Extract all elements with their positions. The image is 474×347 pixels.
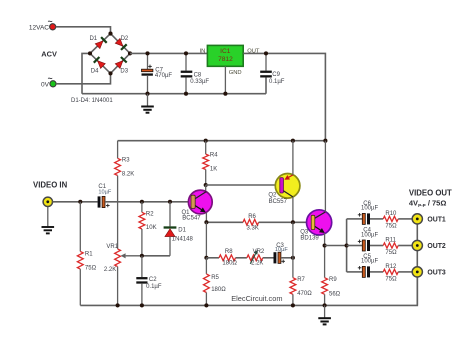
svg-text:R7: R7 <box>297 277 305 283</box>
resistor R8 <box>219 249 237 267</box>
resistor R2 <box>139 202 157 256</box>
svg-text:10K: 10K <box>146 225 157 231</box>
resistor R11 75Ω <box>383 238 398 256</box>
resistor R12 75Ω <box>383 264 398 282</box>
capacitor C7 <box>142 53 173 93</box>
svg-text:75Ω: 75Ω <box>85 265 97 271</box>
terminal VIDEO IN <box>33 181 68 234</box>
svg-text:D4: D4 <box>91 69 99 75</box>
svg-text:100µF: 100µF <box>361 206 378 212</box>
svg-text:OUT3: OUT3 <box>427 269 446 276</box>
junction Q1 collector node <box>204 183 208 187</box>
wire bus to C6 <box>347 218 363 220</box>
svg-text:D3: D3 <box>120 69 128 75</box>
wire R8 to VR2 <box>236 257 247 259</box>
svg-text:R6: R6 <box>248 214 256 220</box>
wire C5 to R12 <box>370 271 383 273</box>
junction wiper row C2 <box>140 254 144 258</box>
wire C1 to Q1 base <box>105 201 189 203</box>
junction mid rail right corner <box>323 139 327 143</box>
svg-text:BC547: BC547 <box>182 216 201 222</box>
capacitor C5 100µF <box>358 254 379 278</box>
svg-text:OUT2: OUT2 <box>427 243 446 250</box>
svg-text:BD139: BD139 <box>300 235 319 241</box>
svg-text:Q2: Q2 <box>268 193 277 199</box>
ground symbol below R9 <box>318 305 331 324</box>
svg-text:R8: R8 <box>225 249 233 255</box>
terminal OUT1 <box>412 214 446 224</box>
svg-text:D1: D1 <box>178 227 186 233</box>
svg-text:180Ω: 180Ω <box>211 287 226 293</box>
wire 0V to bridge bottom <box>56 73 111 83</box>
svg-text:12VAC: 12VAC <box>29 24 49 31</box>
node bridge left vertex <box>88 51 92 55</box>
resistor R5 <box>204 258 227 306</box>
terminal 12VAC input <box>29 16 56 31</box>
svg-text:0.1µF: 0.1µF <box>269 79 285 85</box>
diode D4 <box>91 57 106 75</box>
svg-text:R4: R4 <box>210 153 218 159</box>
svg-text:2.2K: 2.2K <box>251 261 263 267</box>
svg-text:470µF: 470µF <box>155 73 172 79</box>
wire Q3 collector from rail <box>324 141 326 212</box>
svg-text:Q3: Q3 <box>300 229 309 235</box>
transistor Q2 BC557 <box>268 174 300 205</box>
junction output bus <box>345 243 349 247</box>
svg-text:D1-D4: 1N4001: D1-D4: 1N4001 <box>71 98 113 104</box>
wire IC1 OUT rail <box>243 53 325 140</box>
svg-text:4VP-P / 75Ω: 4VP-P / 75Ω <box>409 199 446 208</box>
junction R1 top <box>78 200 82 204</box>
capacitor C1 <box>98 184 112 208</box>
wire VR1 wiper row <box>142 255 170 257</box>
wire bottom ground rail <box>80 272 417 306</box>
diode D3 <box>115 57 128 75</box>
wire Q2 collector node down <box>292 222 294 257</box>
terminal OUT3 <box>412 267 446 277</box>
junction C9 top <box>264 51 268 55</box>
wire C3 to R7 node <box>281 257 293 259</box>
wire Q1 emitter node to R6 <box>206 221 243 223</box>
wire 12VAC to bridge top <box>56 27 111 34</box>
capacitor C6 100µF <box>358 201 379 225</box>
wire output bus <box>346 219 348 272</box>
resistor R4 <box>203 141 218 185</box>
diode D2 <box>115 36 129 50</box>
junction R6 left <box>204 220 208 224</box>
svg-text:IN: IN <box>199 48 205 54</box>
svg-text:R1: R1 <box>85 251 93 257</box>
svg-text:100µF: 100µF <box>361 232 378 238</box>
svg-text:OUT1: OUT1 <box>427 216 446 223</box>
node bridge right vertex <box>128 51 132 55</box>
junction R8 row left <box>204 256 208 260</box>
svg-text:VIDEO IN: VIDEO IN <box>33 181 68 190</box>
svg-text:BC557: BC557 <box>269 199 288 205</box>
resistor R10 75Ω <box>383 211 398 229</box>
svg-text:ElecCircuit.com: ElecCircuit.com <box>231 294 282 303</box>
svg-text:3.3K: 3.3K <box>247 225 259 231</box>
junction D1 top <box>168 200 172 204</box>
junction bottom R5 <box>204 303 208 307</box>
junction bottom C2 <box>140 303 144 307</box>
wire Q2 base <box>206 184 280 186</box>
transistor Q1 BC547 <box>182 190 213 222</box>
wire bridge left vertex to ground rail <box>82 53 90 93</box>
svg-text:R5: R5 <box>211 275 219 281</box>
wire Q1 collector <box>205 185 207 192</box>
diode D1 1N4148 <box>164 202 194 256</box>
svg-text:1K: 1K <box>210 166 217 172</box>
svg-text:GND: GND <box>229 70 242 76</box>
svg-text:VIDEO OUT: VIDEO OUT <box>409 189 452 198</box>
resistor R3 <box>115 141 135 178</box>
wire Q1 emitter <box>205 213 207 223</box>
wire Q2 collector down <box>292 197 294 222</box>
svg-text:~: ~ <box>48 73 53 83</box>
svg-text:75Ω: 75Ω <box>385 223 397 229</box>
wire +12V mid rail <box>118 140 326 142</box>
wire bus to C4 <box>347 245 363 247</box>
svg-text:R11: R11 <box>385 238 396 244</box>
wire to R8 <box>206 257 219 259</box>
wire output terminal bus <box>416 219 418 306</box>
svg-text:7812: 7812 <box>218 56 233 63</box>
label ElecCircuit.com <box>231 294 282 303</box>
wire Q3 emitter down <box>324 233 326 245</box>
wire R11 to OUT2 <box>398 245 412 247</box>
ground symbol below C7 <box>141 94 154 113</box>
diode D1 <box>89 36 106 48</box>
junction C7 top <box>145 51 149 55</box>
svg-text:~: ~ <box>48 16 53 26</box>
wire VIDEO IN to C1 <box>53 201 98 203</box>
svg-text:75Ω: 75Ω <box>385 276 397 282</box>
svg-text:0.1µF: 0.1µF <box>146 284 162 290</box>
junction Q2 collector R6 row <box>291 220 295 224</box>
wire bus to C5 <box>347 271 363 273</box>
wire R6 to Q3 base <box>259 221 312 223</box>
junction C8 bottom <box>184 92 188 96</box>
svg-text:180Ω: 180Ω <box>222 261 237 267</box>
capacitor C4 100µF <box>358 228 379 252</box>
svg-text:R9: R9 <box>329 277 337 283</box>
bridge frame wires <box>90 34 130 74</box>
svg-text:VR2: VR2 <box>253 249 265 255</box>
svg-text:75Ω: 75Ω <box>385 250 397 256</box>
terminal 0V input <box>41 73 56 88</box>
svg-text:C2: C2 <box>149 277 157 283</box>
wire VR2 to C3 <box>263 257 274 259</box>
transistor Q3 BD139 <box>300 210 332 242</box>
wire Q3 emitter to output bus <box>325 245 347 247</box>
svg-text:C8: C8 <box>194 72 202 78</box>
label ACV <box>41 50 57 59</box>
potentiometer VR1 <box>104 244 142 305</box>
svg-text:56Ω: 56Ω <box>329 291 341 297</box>
svg-text:100µF: 100µF <box>361 259 378 265</box>
svg-text:C9: C9 <box>272 72 280 78</box>
svg-text:R10: R10 <box>385 211 397 217</box>
junction IC1 GND <box>223 92 227 96</box>
resistor R1 <box>77 202 96 306</box>
junction mid rail Q2 emitter <box>291 139 295 143</box>
junction C8 top <box>184 51 188 55</box>
svg-text:10µF: 10µF <box>275 247 288 253</box>
svg-text:IC1: IC1 <box>220 48 231 55</box>
wire positive rail bridge to IC1 IN <box>130 52 207 54</box>
wire ground rail <box>82 93 266 95</box>
svg-text:470Ω: 470Ω <box>297 291 312 297</box>
junction R2 top <box>140 200 144 204</box>
svg-text:1N4148: 1N4148 <box>172 237 194 243</box>
capacitor C2 <box>136 256 162 306</box>
svg-text:R12: R12 <box>385 264 397 270</box>
svg-text:R3: R3 <box>122 158 130 164</box>
resistor R7 <box>290 258 312 306</box>
junction bottom VR1 <box>116 303 120 307</box>
wire R3 to VR1 <box>117 176 119 249</box>
wire R10 to OUT1 <box>398 218 412 220</box>
label VIDEO OUT <box>409 189 452 209</box>
wire C6 to R10 <box>370 218 383 220</box>
node bridge bottom vertex <box>108 71 112 75</box>
svg-text:10µF: 10µF <box>98 190 111 196</box>
svg-text:D2: D2 <box>121 36 129 42</box>
wire emitter node down <box>205 222 207 257</box>
svg-text:8.2K: 8.2K <box>122 171 134 177</box>
svg-text:D1: D1 <box>89 36 97 42</box>
svg-text:2.2K: 2.2K <box>104 267 116 273</box>
junction bottom R9 <box>323 303 327 307</box>
svg-text:R2: R2 <box>146 212 154 218</box>
junction bottom R7 <box>291 303 295 307</box>
junction mid rail R4 <box>204 139 208 143</box>
svg-text:VR1: VR1 <box>106 244 118 250</box>
svg-text:0.33µF: 0.33µF <box>190 79 209 85</box>
junction C7 bottom <box>145 92 149 96</box>
wire C4 to R11 <box>370 245 383 247</box>
op-amp IC1 voltage regulator 7812 <box>199 45 259 76</box>
potentiometer VR2 <box>247 249 265 267</box>
wire IC1 GND pin to ground rail <box>224 66 226 93</box>
capacitor C8 <box>181 53 210 93</box>
capacitor C3 <box>274 243 289 264</box>
terminal OUT2 <box>412 240 446 250</box>
svg-text:ACV: ACV <box>41 50 57 59</box>
label D1-D4 1N4001 <box>71 98 113 104</box>
capacitor C9 <box>260 53 285 93</box>
wire R12 to OUT3 <box>398 271 412 273</box>
resistor R6 <box>243 214 259 231</box>
junction R7 top node <box>291 256 295 260</box>
resistor R9 <box>322 246 341 306</box>
junction Q3 emitter node <box>323 243 327 247</box>
wire Q2 emitter to rail <box>292 141 294 175</box>
node bridge top vertex <box>108 32 112 36</box>
